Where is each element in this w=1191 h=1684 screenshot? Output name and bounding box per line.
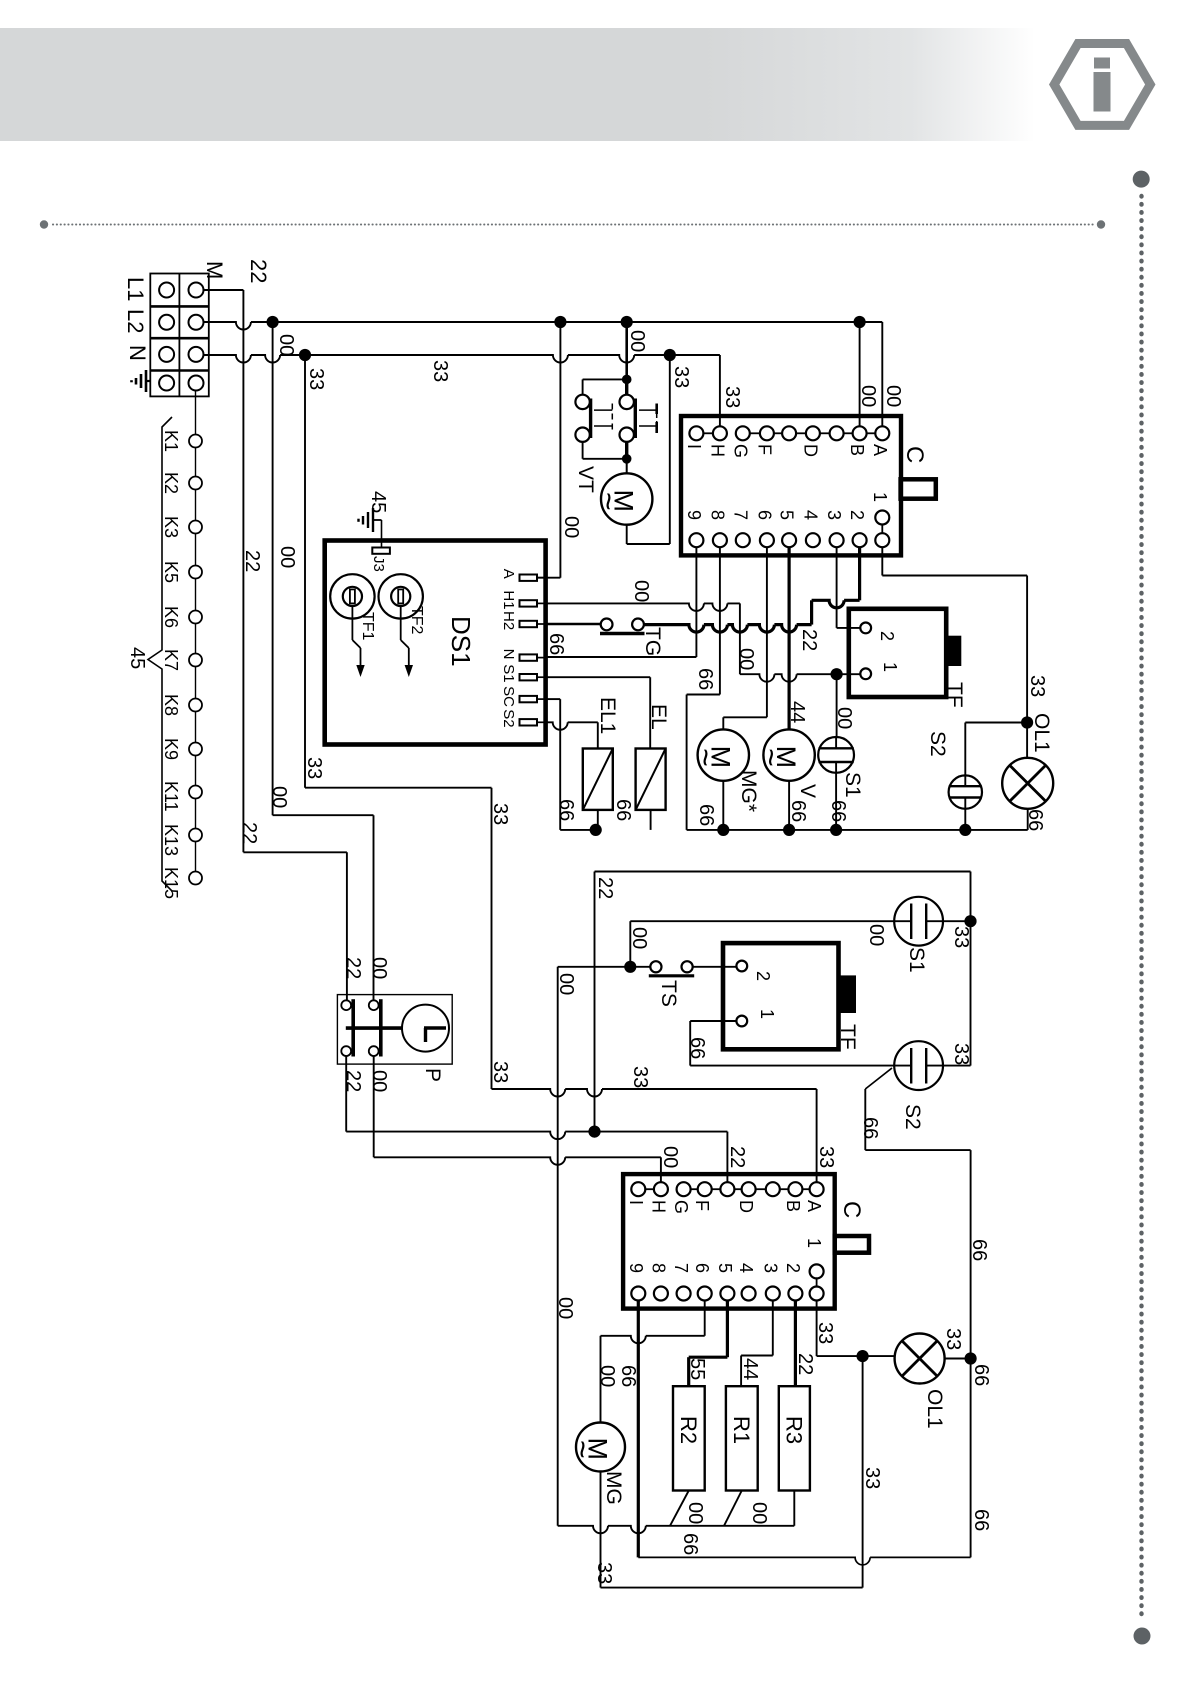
svg-text:I: I: [626, 1200, 646, 1205]
svg-text:45: 45: [126, 647, 148, 669]
svg-text:2: 2: [877, 631, 897, 641]
wire 00 bus from L2: [204, 322, 883, 330]
svg-text:~: ~: [753, 748, 789, 767]
svg-text:I: I: [684, 444, 704, 449]
wire 66 from S2 down: [865, 1068, 892, 1089]
svg-text:R1: R1: [729, 1416, 754, 1444]
svg-text:M: M: [202, 261, 227, 279]
svg-text:~: ~: [565, 1440, 601, 1459]
svg-text:66: 66: [555, 799, 577, 821]
wire net 00 left: [273, 814, 374, 816]
svg-text:TF2: TF2: [408, 606, 425, 635]
wire 00 drop to DS1 pin A: [559, 322, 561, 578]
svg-text:DS1: DS1: [446, 616, 476, 667]
resistor R2: [673, 1386, 705, 1490]
wire 22 net to connector: [346, 1132, 727, 1140]
node on 33 bus at x305: [299, 349, 311, 361]
svg-text:33: 33: [593, 1562, 615, 1584]
svg-text:00: 00: [882, 385, 904, 407]
wire 33 net to connector pin A: [492, 1089, 817, 1097]
wire 66 bus lower: [687, 829, 1028, 831]
node V 66: [783, 824, 795, 836]
svg-text:7: 7: [671, 1263, 691, 1273]
wire S1 pad to EL top: [546, 676, 651, 678]
wire DS1 H1 net 00: [546, 603, 740, 611]
svg-text:33: 33: [429, 360, 451, 382]
svg-text:J3: J3: [370, 556, 387, 572]
svg-text:A: A: [804, 1200, 824, 1212]
wire 00 net to connector pin H: [374, 1157, 661, 1165]
svg-text:OL1: OL1: [1030, 713, 1053, 753]
svg-text:5: 5: [777, 510, 797, 520]
svg-text:00: 00: [833, 707, 855, 729]
wire pin1 to OL1 net 33: [816, 1301, 818, 1357]
svg-text:MG*: MG*: [737, 770, 760, 812]
svg-text:00: 00: [748, 1502, 770, 1524]
svg-text:D: D: [736, 1200, 756, 1213]
node on 00 bus at x273: [267, 316, 279, 328]
node 22 junction: [588, 1126, 600, 1138]
node S1 66: [830, 824, 842, 836]
svg-text:33: 33: [861, 1467, 883, 1489]
wire pin6 to MG motor: [766, 547, 768, 717]
capacitor S2 upper: [965, 722, 1027, 724]
svg-text:33: 33: [1026, 675, 1048, 697]
wire pin9 net 66 thick: [637, 1301, 640, 1558]
svg-text:S2: S2: [926, 731, 949, 757]
svg-text:N: N: [125, 345, 150, 361]
switch VT pushbutton: [622, 375, 632, 385]
DS1 pin A: [520, 575, 538, 581]
svg-text:K5: K5: [161, 561, 181, 583]
svg-text:00: 00: [554, 1297, 576, 1319]
svg-text:66: 66: [1024, 809, 1046, 831]
svg-text:22: 22: [342, 1070, 364, 1092]
lamp OL1 lower: [895, 1334, 945, 1384]
svg-text:00: 00: [560, 516, 582, 538]
wire 22 upper run fig2: [595, 871, 971, 873]
svg-text:44: 44: [786, 701, 808, 723]
wire TS to S1 net 00: [629, 921, 631, 967]
pressure switch P: [337, 995, 452, 1065]
svg-text:P: P: [421, 1068, 444, 1082]
wire net 22 vertical: [242, 290, 244, 852]
lamp OL1 upper: [1002, 758, 1053, 809]
svg-text:8: 8: [648, 1263, 668, 1273]
motor VT: [626, 459, 628, 474]
terminal block L1 L2 N PE: [150, 274, 209, 397]
svg-text:VT: VT: [574, 466, 597, 493]
node 22/33: [964, 915, 976, 927]
svg-text:TF: TF: [836, 1024, 859, 1050]
wire 00 drop to connector pin B: [854, 316, 866, 328]
svg-text:66: 66: [968, 1239, 990, 1261]
svg-text:66: 66: [617, 1365, 639, 1387]
component DS1 control board: [325, 541, 546, 745]
DS1 pin S2: [520, 719, 538, 725]
svg-text:6: 6: [754, 510, 774, 520]
svg-text:OL1: OL1: [923, 1389, 946, 1429]
svg-text:G: G: [730, 444, 750, 458]
svg-text:K6: K6: [161, 606, 181, 628]
svg-text:SC: SC: [500, 686, 517, 707]
wire pin6 to MG: [704, 1301, 706, 1336]
svg-text:S1: S1: [905, 947, 928, 973]
svg-text:L1: L1: [123, 277, 148, 301]
svg-text:33: 33: [814, 1322, 836, 1344]
svg-text:H: H: [648, 1200, 668, 1213]
svg-text:33: 33: [950, 1043, 972, 1065]
svg-text:6: 6: [692, 1263, 712, 1273]
svg-text:00: 00: [684, 1502, 706, 1524]
svg-text:33: 33: [303, 757, 325, 779]
wire VT motor to 33 bus: [626, 525, 628, 544]
pin 1 double contact: [810, 1264, 824, 1278]
svg-text:TF: TF: [943, 682, 966, 708]
ground chain K1-K15: [195, 391, 197, 879]
wire net 33 left: [305, 787, 492, 789]
brace 45 for ground chain: [148, 417, 172, 891]
svg-text:G: G: [671, 1200, 691, 1214]
svg-text:L2: L2: [123, 309, 148, 333]
svg-text:22: 22: [798, 629, 820, 651]
svg-text:66: 66: [859, 1117, 881, 1139]
svg-text:K8: K8: [161, 694, 181, 716]
svg-text:00: 00: [857, 385, 879, 407]
svg-text:66: 66: [970, 1364, 992, 1386]
svg-text:66: 66: [695, 804, 717, 826]
svg-text:00: 00: [555, 973, 577, 995]
svg-text:33: 33: [489, 1061, 511, 1083]
svg-text:B: B: [847, 444, 867, 456]
svg-text:F: F: [754, 444, 774, 455]
svg-text:33: 33: [670, 366, 692, 388]
svg-text:44: 44: [739, 1358, 761, 1380]
wire pin8 to 66 bus: [719, 547, 721, 694]
svg-text:00: 00: [368, 957, 390, 979]
dotted rule vertical right: [1133, 171, 1150, 188]
svg-text:MG: MG: [602, 1471, 625, 1505]
svg-text:TF1: TF1: [359, 612, 376, 641]
svg-text:45: 45: [367, 491, 389, 513]
node OL1 66: [965, 1352, 977, 1364]
capacitor S1 upper: [836, 674, 838, 737]
connector C lower: [623, 1174, 835, 1309]
svg-text:D: D: [800, 444, 820, 457]
svg-text:4: 4: [800, 510, 820, 520]
wire S1 node to S2 net 33: [970, 921, 972, 1065]
svg-text:A: A: [870, 444, 890, 456]
svg-text:00: 00: [659, 1146, 681, 1168]
svg-text:8: 8: [707, 510, 727, 520]
svg-text:22: 22: [241, 550, 263, 572]
svg-text:K9: K9: [161, 738, 181, 760]
wire MG bottom net 33: [600, 1472, 602, 1588]
svg-text:H2: H2: [500, 611, 517, 630]
svg-text:7: 7: [730, 510, 750, 520]
DS1 pin H1: [520, 600, 538, 606]
wires P bottom: [345, 1056, 347, 1132]
svg-text:33: 33: [942, 1328, 964, 1350]
node 00 bus to VT: [621, 316, 633, 328]
svg-text:33: 33: [721, 386, 743, 408]
svg-text:66: 66: [545, 633, 567, 655]
svg-text:1: 1: [804, 1238, 824, 1248]
resistor R3: [779, 1386, 810, 1490]
pin 1 double contact: [875, 511, 889, 525]
motor V with thick 44 wire: [787, 547, 790, 729]
wire S2 pad to EL1 top: [546, 722, 598, 730]
svg-text:1: 1: [880, 662, 900, 672]
svg-text:9: 9: [684, 510, 704, 520]
svg-text:B: B: [783, 1200, 803, 1212]
capacitor S2 lower: [894, 1041, 943, 1090]
info icon i: [1094, 58, 1110, 69]
DS1 pin SC: [520, 696, 538, 702]
node EL1 bottom: [590, 824, 602, 836]
svg-text:R2: R2: [676, 1416, 701, 1444]
svg-text:66: 66: [827, 800, 849, 822]
fuse TF1 on DS1: [330, 574, 374, 618]
wire net 33 vertical left: [304, 355, 306, 788]
wire 00 drop to connector pin A: [881, 322, 883, 426]
wire pin2 to R3 net 22 thick: [794, 1301, 797, 1387]
svg-text:TG: TG: [641, 627, 664, 656]
svg-text:S2: S2: [901, 1104, 924, 1130]
svg-text:K7: K7: [161, 649, 181, 671]
earth ground at terminal: [146, 380, 150, 382]
jumper J3: [381, 520, 383, 548]
DS1 pin S1: [520, 674, 538, 680]
svg-text:00: 00: [275, 334, 297, 356]
svg-text:2: 2: [783, 1263, 803, 1273]
svg-text:00: 00: [368, 1070, 390, 1092]
svg-text:EL: EL: [647, 704, 670, 730]
svg-text:H: H: [707, 444, 727, 457]
wire 33 drop to connector pin H: [719, 355, 721, 426]
node 33 bus VT return: [664, 349, 676, 361]
svg-text:K3: K3: [161, 516, 181, 538]
relay TF upper: [849, 609, 946, 697]
svg-text:S1: S1: [500, 664, 517, 682]
svg-text:00: 00: [630, 580, 652, 602]
switch TS: [557, 967, 559, 1526]
svg-text:1: 1: [757, 1009, 777, 1019]
banner gradient bar: [0, 28, 1035, 141]
svg-text:66: 66: [787, 800, 809, 822]
svg-text:2: 2: [847, 510, 867, 520]
svg-text:5: 5: [715, 1263, 735, 1273]
svg-text:33: 33: [489, 803, 511, 825]
svg-text:9: 9: [626, 1263, 646, 1273]
fuse TF2 on DS1: [379, 574, 423, 618]
svg-text:1: 1: [870, 492, 890, 502]
svg-text:22: 22: [594, 877, 616, 899]
resistor R1: [726, 1386, 758, 1490]
wire TG to pin2 net 22 thick: [644, 625, 812, 633]
svg-text:33: 33: [815, 1146, 837, 1168]
svg-text:K1: K1: [161, 430, 181, 452]
svg-text:00: 00: [865, 924, 887, 946]
connector C tab: [835, 1236, 869, 1253]
svg-text:4: 4: [736, 1263, 756, 1273]
wire pin5 to R2 net 55 thick: [726, 1301, 729, 1358]
svg-text:66: 66: [686, 1037, 708, 1059]
connector C tab: [901, 479, 936, 498]
fuse TG: [546, 623, 601, 626]
node MG* 66: [717, 824, 729, 836]
node H1/TF junction: [831, 668, 843, 680]
svg-text:66: 66: [970, 1509, 992, 1531]
wire net 22 left: [243, 851, 347, 853]
svg-text:55: 55: [686, 1358, 708, 1380]
svg-text:22: 22: [342, 957, 364, 979]
svg-text:K11: K11: [161, 781, 181, 812]
svg-text:3: 3: [760, 1263, 780, 1273]
svg-text:S1: S1: [841, 772, 864, 798]
svg-text:22: 22: [246, 259, 271, 283]
wire SC to EL1 bottom net 66: [546, 698, 561, 700]
wire TF pin1 to S2 net 66: [690, 1020, 736, 1022]
svg-text:33: 33: [950, 926, 972, 948]
wire pin1 to OL1/S2 net 33: [881, 547, 883, 575]
motor MG lower: [576, 1423, 625, 1472]
svg-text:00: 00: [596, 1365, 618, 1387]
svg-text:K2: K2: [161, 472, 181, 494]
info icon hexagon: [1054, 44, 1150, 126]
svg-text:00: 00: [268, 786, 290, 808]
svg-text:~: ~: [591, 492, 627, 511]
svg-text:V: V: [796, 784, 819, 798]
wire pin9 to DS1 N: [695, 547, 697, 657]
svg-text:66: 66: [612, 799, 634, 821]
node 33 OL1/S2: [1021, 716, 1033, 728]
dotted rule horizontal: [40, 220, 1105, 228]
node TS junction: [624, 961, 636, 973]
node S2 66: [959, 824, 971, 836]
wire L1 to 22 line: [204, 289, 244, 291]
svg-text:22: 22: [238, 822, 260, 844]
svg-text:~: ~: [687, 748, 723, 767]
wire net 00 vertical left: [272, 322, 274, 815]
node 00 bus to DS1-A: [554, 316, 566, 328]
svg-text:R3: R3: [782, 1416, 807, 1444]
svg-text:66: 66: [679, 1533, 701, 1555]
svg-text:22: 22: [726, 1146, 748, 1168]
wire pin3 to TF pin2: [836, 547, 838, 628]
svg-text:C: C: [901, 446, 928, 463]
heater EL1: [583, 749, 613, 810]
wire 00 drop to VT switch: [625, 322, 628, 379]
svg-text:H1: H1: [500, 590, 517, 609]
DS1 pin H2: [520, 621, 538, 627]
wires R bottoms net 00: [670, 1491, 689, 1526]
svg-text:3: 3: [824, 510, 844, 520]
heater EL: [636, 749, 666, 810]
wire 33 bus from N: [204, 355, 720, 363]
relay TF lower: [723, 943, 839, 1049]
capacitor S1 lower: [894, 897, 943, 946]
svg-text:K13: K13: [161, 824, 181, 856]
connector C upper: [681, 416, 901, 555]
svg-text:F: F: [692, 1200, 712, 1211]
motor MG* upper: [698, 729, 749, 780]
svg-text:C: C: [838, 1201, 865, 1218]
svg-text:EL1: EL1: [596, 697, 619, 734]
svg-text:22: 22: [794, 1353, 816, 1375]
svg-text:2: 2: [753, 971, 773, 981]
node 33 OL1 left: [857, 1350, 869, 1362]
earth ground 45 above DS1: [373, 519, 382, 521]
svg-text:00: 00: [735, 648, 757, 670]
svg-text:00: 00: [626, 330, 648, 352]
svg-text:66: 66: [694, 668, 716, 690]
svg-text:33: 33: [305, 368, 327, 390]
svg-text:A: A: [500, 569, 517, 579]
svg-text:00: 00: [276, 546, 298, 568]
svg-text:S2: S2: [500, 709, 517, 727]
svg-text:00: 00: [628, 927, 650, 949]
svg-text:33: 33: [629, 1066, 651, 1088]
DS1 pin N: [520, 654, 538, 660]
wire pin3 to R1 net 44: [772, 1301, 774, 1356]
svg-text:TS: TS: [657, 980, 680, 1007]
svg-text:N: N: [500, 649, 517, 660]
